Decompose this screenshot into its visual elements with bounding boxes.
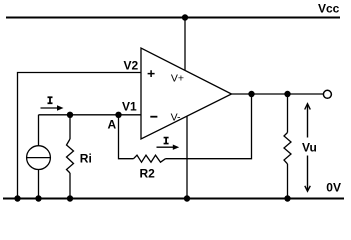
svg-text:R2: R2	[140, 167, 156, 181]
svg-text:Vu: Vu	[302, 141, 317, 155]
svg-text:A: A	[108, 118, 117, 132]
svg-text:Ri: Ri	[80, 152, 92, 166]
svg-text:V-: V-	[171, 112, 181, 124]
svg-text:V1: V1	[122, 99, 137, 113]
svg-text:V+: V+	[171, 72, 184, 84]
svg-text:V2: V2	[124, 58, 139, 72]
svg-text:Vcc: Vcc	[318, 2, 340, 16]
svg-text:0V: 0V	[326, 181, 341, 195]
